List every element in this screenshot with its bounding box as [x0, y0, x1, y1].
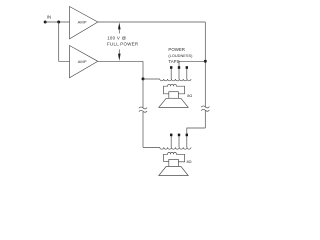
transformer T1 tap terminals	[170, 66, 188, 69]
wire left bus vertical lower	[142, 112, 144, 147]
svg-text:FULL POWER: FULL POWER	[107, 41, 138, 46]
svg-text:TAPS: TAPS	[168, 59, 179, 64]
speaker LS2	[159, 152, 188, 175]
label 100 V @ FULL POWER	[107, 35, 138, 46]
wire right bus vertical lower	[204, 111, 206, 128]
wire upper transformer middle tap to bus	[179, 61, 205, 67]
svg-text:100 V @: 100 V @	[107, 35, 126, 40]
speaker LS1	[159, 84, 188, 107]
transformer T2 primary winding	[143, 147, 191, 149]
transformer T1 tap leads	[171, 66, 187, 79]
break symbol right bus	[201, 106, 209, 111]
svg-text:AMP: AMP	[78, 59, 87, 64]
transformer T2 tap leads	[171, 134, 187, 148]
junction node left bus	[142, 77, 145, 80]
svg-text:8Ω: 8Ω	[187, 93, 192, 98]
wire right bus to lower transformer tap	[187, 128, 206, 134]
svg-text:IN: IN	[47, 14, 52, 19]
svg-text:POWER: POWER	[168, 47, 185, 52]
svg-text:8Ω: 8Ω	[187, 159, 192, 164]
amplifier AMP2	[70, 46, 98, 78]
break symbol left bus	[139, 107, 147, 112]
svg-text:(LOUDNESS): (LOUDNESS)	[168, 53, 193, 58]
junction node tap bus	[204, 60, 207, 63]
wire left bus vertical upper	[142, 61, 144, 107]
input terminal IN	[44, 14, 52, 23]
wire input to AMP1	[45, 21, 69, 23]
wire branch to AMP2 input	[59, 22, 70, 61]
transformer T1 primary winding	[143, 79, 191, 81]
transformer T2 tap terminals	[170, 134, 188, 137]
wire AMP1 output to right bus	[98, 21, 206, 23]
amplifier AMP1	[70, 7, 98, 39]
junction node input branch	[57, 21, 60, 24]
wire AMP2 output	[98, 60, 143, 62]
measurement arrow 100V	[118, 22, 121, 61]
svg-text:AMP: AMP	[78, 19, 87, 24]
wire right bus vertical upper	[204, 22, 206, 107]
label POWER (LOUDNESS) TAPS	[168, 47, 193, 64]
